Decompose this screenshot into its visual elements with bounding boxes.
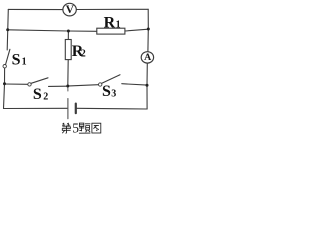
voltmeter V <box>63 3 76 16</box>
node right-lower <box>146 84 149 87</box>
label S3 <box>102 83 116 100</box>
wire left vertical upper <box>7 9 8 50</box>
wire top row right <box>76 8 148 10</box>
caption glyph 题 <box>79 123 91 133</box>
node left-lower <box>3 82 6 85</box>
wire S2 row left <box>5 83 28 85</box>
svg-text:1: 1 <box>22 56 27 67</box>
switch S2 <box>28 78 48 86</box>
resistor R1 <box>97 28 125 34</box>
ammeter A <box>141 52 153 64</box>
svg-text:S: S <box>12 51 21 68</box>
wire bottom row left <box>4 107 68 109</box>
wire S2 row center <box>49 85 67 87</box>
wire R2 top <box>67 31 69 40</box>
battery <box>68 99 76 119</box>
label R2 <box>72 43 86 60</box>
caption glyph 第 <box>62 123 71 133</box>
switch S3 <box>99 75 121 87</box>
wire middle row center <box>68 30 96 32</box>
node left-middle <box>6 28 9 31</box>
wire left vertical lower <box>4 84 5 109</box>
svg-text:5: 5 <box>72 121 79 135</box>
label S1 <box>12 51 27 68</box>
svg-text:S: S <box>33 86 42 103</box>
node center-lower <box>66 85 69 88</box>
wire S3 to right <box>122 84 147 85</box>
wire R2 bottom <box>67 60 69 86</box>
wire right vertical to ammeter <box>147 29 149 52</box>
label S2 <box>33 86 48 103</box>
wire bottom row right <box>76 107 147 110</box>
wire right vertical upper <box>147 9 149 29</box>
wire left vertical below S1 <box>4 68 6 84</box>
switch S1 <box>3 49 10 68</box>
svg-text:2: 2 <box>43 91 48 102</box>
resistor R2 <box>65 40 71 60</box>
wire right vertical lower <box>146 85 148 109</box>
wire stub below center node <box>67 86 69 91</box>
svg-text:1: 1 <box>116 20 121 31</box>
svg-text:2: 2 <box>81 49 86 60</box>
label R1 <box>104 15 121 32</box>
svg-text:3: 3 <box>111 88 116 99</box>
svg-text:V: V <box>66 4 75 16</box>
caption glyph 图 <box>92 123 101 133</box>
wire S2 row right of node <box>69 85 98 86</box>
svg-text:S: S <box>102 83 111 100</box>
svg-text:R: R <box>104 15 116 32</box>
node R2 top <box>67 30 70 33</box>
wire middle row left <box>8 30 69 31</box>
wire top row left <box>8 8 63 10</box>
wire right vertical below ammeter <box>146 63 148 85</box>
svg-text:A: A <box>144 52 151 63</box>
wire middle row right <box>125 29 148 31</box>
node right-middle <box>147 28 150 31</box>
